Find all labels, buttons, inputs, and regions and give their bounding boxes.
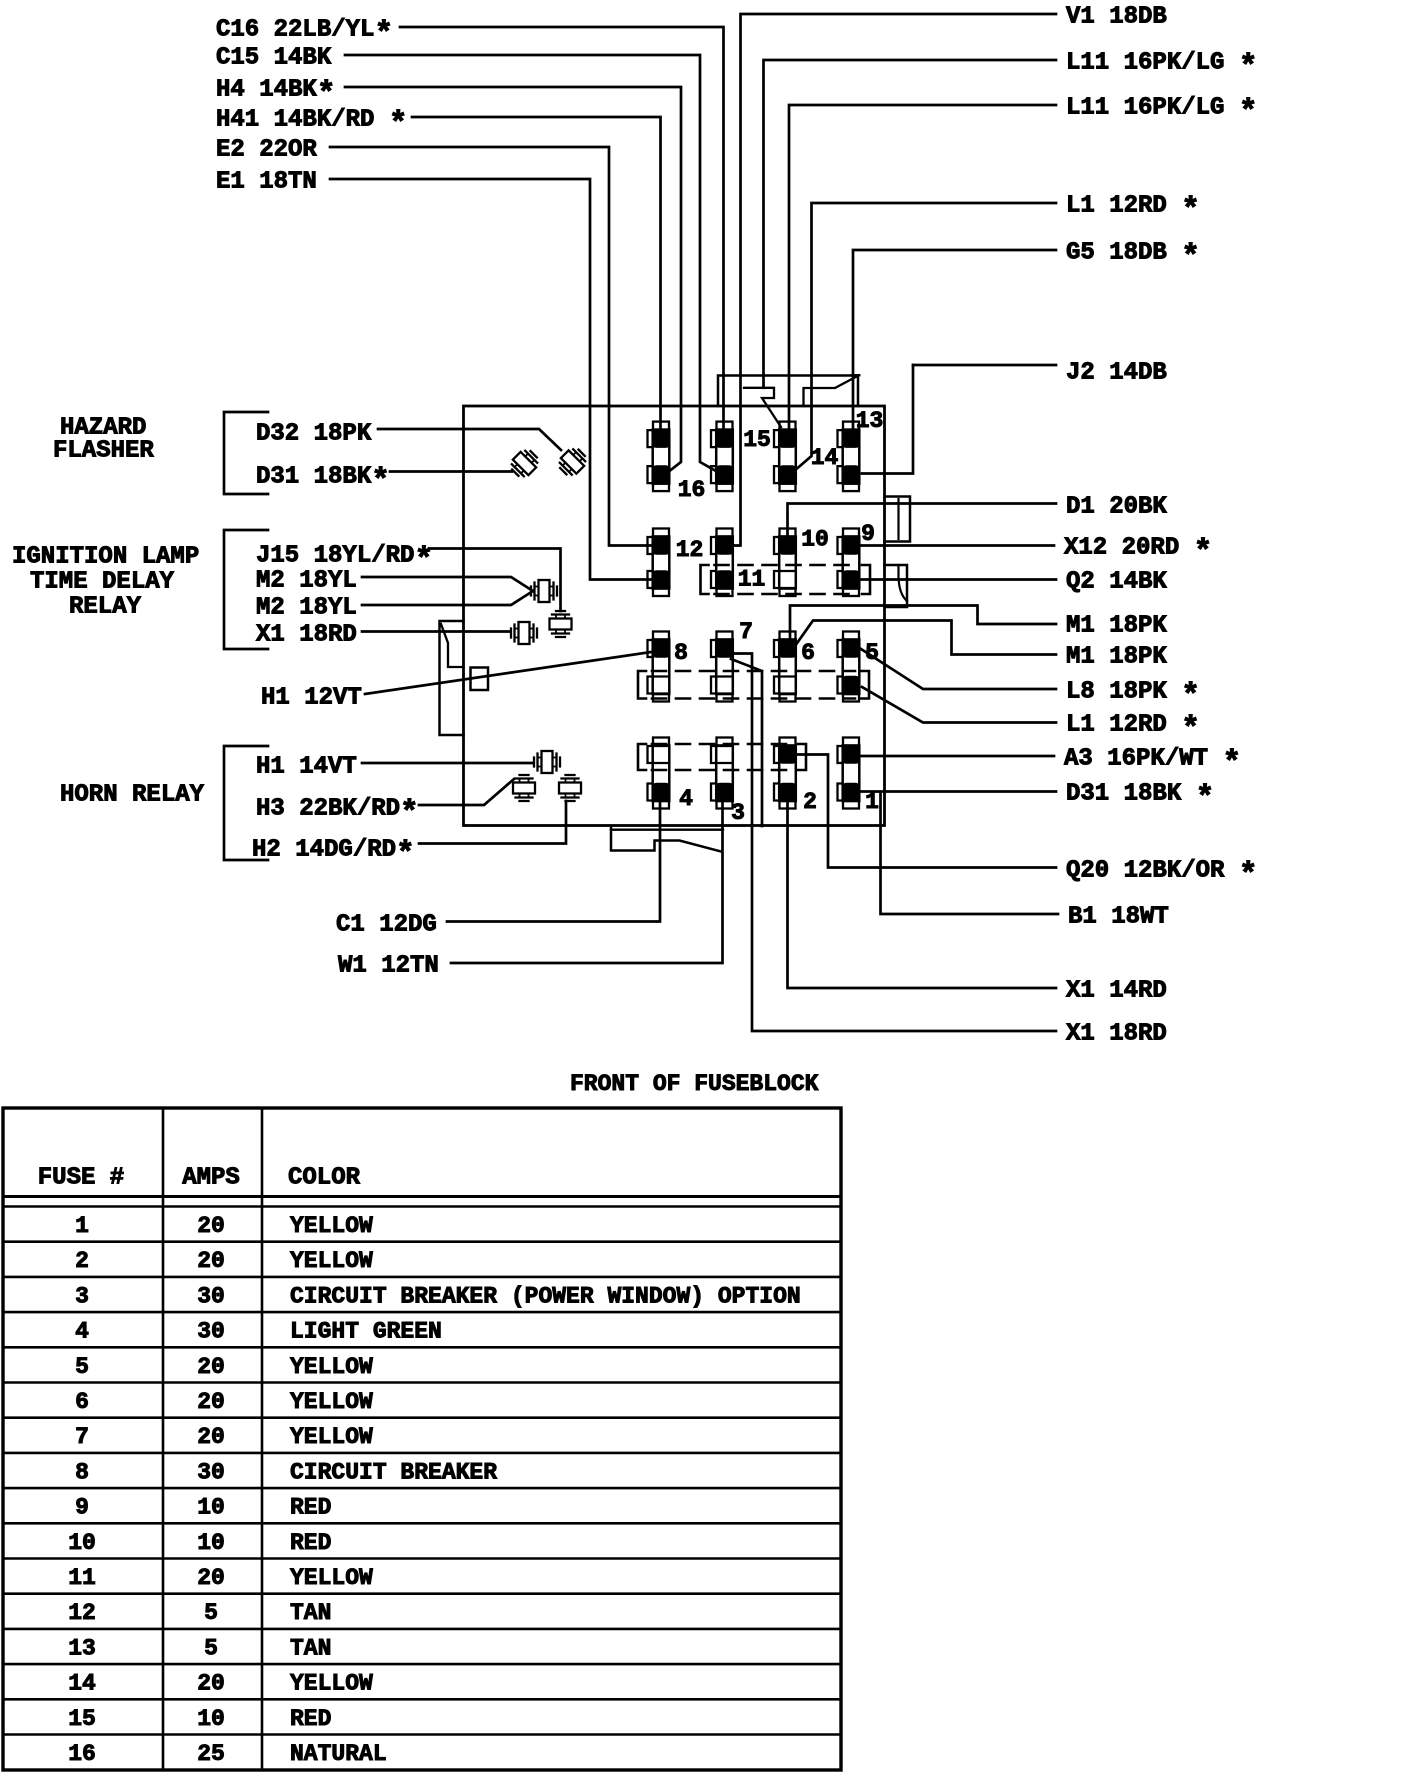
wire X1 18RD from fuse 7 top <box>735 654 1056 1032</box>
svg-text:25: 25 <box>197 1741 225 1767</box>
table row line 4 <box>3 1346 841 1349</box>
table row line 14 <box>3 1698 841 1701</box>
svg-text:E1 18TN: E1 18TN <box>216 168 317 195</box>
connector H1 socket square <box>471 668 489 691</box>
fuse F6 <box>774 632 797 702</box>
wire L11 second to fuse 14 top <box>789 105 1056 429</box>
table row line 7 <box>3 1452 841 1455</box>
svg-text:30: 30 <box>197 1459 225 1485</box>
wire C15 to fuse 15 bottom <box>345 55 716 471</box>
svg-text:5: 5 <box>204 1635 218 1661</box>
fuse F7 <box>711 632 734 702</box>
svg-text:AMPS: AMPS <box>182 1164 240 1191</box>
svg-text:5: 5 <box>204 1600 218 1626</box>
fuse F1 <box>838 738 861 809</box>
svg-text:11: 11 <box>68 1565 96 1591</box>
table column line 2 <box>261 1108 264 1770</box>
table column line 1 <box>162 1108 165 1770</box>
svg-text:15: 15 <box>743 427 771 453</box>
svg-text:X1 18RD: X1 18RD <box>1066 1020 1167 1047</box>
dashed outline row 4 upper <box>638 744 646 770</box>
svg-text:10: 10 <box>68 1530 96 1556</box>
ignition relay plug X1 <box>511 622 537 644</box>
wire L1 top to fuse 14 bottom <box>797 203 1056 469</box>
svg-text:4: 4 <box>679 786 693 812</box>
svg-text:10: 10 <box>197 1530 225 1556</box>
svg-text:M2 18YL: M2 18YL <box>256 594 357 621</box>
svg-text:TAN: TAN <box>290 1600 331 1626</box>
svg-text:X12 20RD *: X12 20RD * <box>1064 534 1212 570</box>
wire X1 left to relay plug <box>362 630 510 633</box>
bracket ignition relay group <box>224 530 268 649</box>
wire C1 to fuse 4 bottom <box>447 801 660 922</box>
wire X12 to fuse 9 top <box>862 544 1055 547</box>
wire W1 to fuse 3 bottom <box>451 801 723 963</box>
fuse table <box>3 1108 841 1770</box>
wire G5 tab stub <box>852 374 860 376</box>
bracket horn relay group <box>224 746 268 860</box>
wire H2 to horn plug <box>419 801 566 844</box>
wire A3 to fuse 1 top <box>862 755 1055 758</box>
fuse F14 <box>774 422 797 492</box>
wire M2 second to relay plug <box>362 591 533 605</box>
fuse F12 <box>648 529 671 597</box>
svg-text:D31 18BK*: D31 18BK* <box>256 463 390 499</box>
svg-text:20: 20 <box>197 1671 225 1697</box>
fuse F2 <box>774 738 797 809</box>
wire fuse 7 stub <box>731 659 762 826</box>
svg-text:1: 1 <box>75 1213 89 1239</box>
wire L8 to fuse 5 top <box>861 649 1056 689</box>
svg-text:A3 16PK/WT *: A3 16PK/WT * <box>1064 745 1241 781</box>
dashed outline row 3 lower <box>638 671 646 699</box>
svg-text:3: 3 <box>75 1283 89 1309</box>
table row line 3 <box>3 1311 841 1314</box>
svg-text:2: 2 <box>75 1248 89 1274</box>
svg-text:8: 8 <box>75 1459 89 1485</box>
svg-text:J2 14DB: J2 14DB <box>1066 359 1167 386</box>
svg-text:X1 14RD: X1 14RD <box>1066 977 1167 1004</box>
fuse F10 <box>774 529 797 597</box>
wire L11 first to fuse 14 top <box>764 60 1057 388</box>
svg-text:M1 18PK: M1 18PK <box>1066 643 1167 670</box>
svg-text:6: 6 <box>75 1389 89 1415</box>
svg-text:RED: RED <box>290 1706 331 1732</box>
horn relay plug H1 <box>534 751 560 773</box>
svg-text:20: 20 <box>197 1565 225 1591</box>
svg-text:6: 6 <box>801 640 815 666</box>
fuse F8 <box>648 632 671 702</box>
wire D31 to fuse 1 bottom <box>862 790 1057 793</box>
svg-text:L11 16PK/LG *: L11 16PK/LG * <box>1066 49 1258 85</box>
svg-text:9: 9 <box>861 521 875 547</box>
wire D1 to fuse 10 top <box>788 504 1057 537</box>
svg-text:V1 18DB: V1 18DB <box>1066 3 1167 30</box>
svg-text:LIGHT GREEN: LIGHT GREEN <box>290 1319 442 1345</box>
wire M1 first to fuse 6 top <box>790 606 1056 641</box>
wire M1 second to fuse 6 top <box>795 621 1056 655</box>
wire V1 to fuse 11 top <box>735 14 1056 546</box>
fuse block bottom double edge <box>611 829 723 831</box>
svg-text:20: 20 <box>197 1424 225 1450</box>
wire J2 to fuse 13 bottom <box>862 365 913 474</box>
fuse block right tab upper <box>885 497 911 542</box>
hazard flasher plug right <box>556 445 590 479</box>
svg-text:L11 16PK/LG *: L11 16PK/LG * <box>1066 94 1258 130</box>
wire J15 to relay plug <box>429 549 561 612</box>
table outer border <box>3 1108 841 1770</box>
svg-text:1: 1 <box>865 789 879 815</box>
ignition relay plug J15 <box>550 611 572 637</box>
svg-text:30: 30 <box>197 1283 225 1309</box>
fuse F9 <box>838 529 861 597</box>
table row line 2 <box>3 1276 841 1279</box>
svg-text:FUSE #: FUSE # <box>38 1164 124 1191</box>
wire E1 to fuse 12 bottom <box>330 179 651 580</box>
fuse F15 <box>711 422 734 492</box>
svg-text:H2 14DG/RD*: H2 14DG/RD* <box>252 836 415 872</box>
dashed outline fuse 11 row <box>701 565 709 594</box>
fuse F13 <box>838 422 861 492</box>
svg-text:M2 18YL: M2 18YL <box>256 567 357 594</box>
fuse F11 <box>711 529 734 597</box>
svg-text:11: 11 <box>738 566 766 592</box>
wire L1 bottom to fuse 5 bottom <box>862 687 1056 723</box>
wire X1 14RD from fuse 2 bottom <box>788 801 1057 988</box>
svg-text:20: 20 <box>197 1354 225 1380</box>
svg-text:10: 10 <box>801 526 829 552</box>
svg-text:C15 14BK: C15 14BK <box>216 44 332 71</box>
svg-text:14: 14 <box>811 445 839 471</box>
wire E2 to fuse 12 top <box>330 147 651 546</box>
svg-text:IGNITION LAMP: IGNITION LAMP <box>12 543 199 570</box>
ignition relay plug M2 <box>531 580 557 602</box>
wire H41 to fuse 16 top <box>412 117 661 429</box>
svg-text:CIRCUIT BREAKER (POWER WINDOW): CIRCUIT BREAKER (POWER WINDOW) OPTION <box>290 1283 801 1309</box>
wire Q2 to fuse 9 bottom <box>862 578 1057 581</box>
svg-text:8: 8 <box>674 640 688 666</box>
svg-text:7: 7 <box>75 1424 89 1450</box>
table row line 15 <box>3 1733 841 1736</box>
svg-text:NATURAL: NATURAL <box>290 1741 387 1767</box>
wire D32 to flasher <box>378 429 561 450</box>
fuse block top tab <box>718 376 858 407</box>
svg-text:D32 18PK: D32 18PK <box>256 420 372 447</box>
fuse block right tab lower <box>885 565 908 607</box>
svg-text:D1 20BK: D1 20BK <box>1066 493 1167 520</box>
svg-text:TIME DELAY: TIME DELAY <box>30 568 175 595</box>
svg-text:YELLOW: YELLOW <box>290 1248 373 1274</box>
svg-text:Q2 14BK: Q2 14BK <box>1066 568 1167 595</box>
wire J2 leader <box>913 364 1056 367</box>
svg-text:G5 18DB *: G5 18DB * <box>1066 239 1200 275</box>
svg-text:E2 22OR: E2 22OR <box>216 136 317 163</box>
wire jog to top tab corner <box>804 376 858 406</box>
table row line 9 <box>3 1522 841 1525</box>
svg-text:RED: RED <box>290 1495 331 1521</box>
svg-text:16: 16 <box>678 477 706 503</box>
svg-text:RELAY: RELAY <box>69 593 142 620</box>
table row line 8 <box>3 1487 841 1490</box>
svg-text:H3 22BK/RD*: H3 22BK/RD* <box>256 795 419 831</box>
svg-text:16: 16 <box>68 1741 96 1767</box>
svg-text:20: 20 <box>197 1389 225 1415</box>
table row line 11 <box>3 1592 841 1595</box>
table row line 5 <box>3 1381 841 1384</box>
fuse F4 <box>648 738 671 809</box>
hazard flasher plug left <box>508 447 542 481</box>
svg-text:20: 20 <box>197 1213 225 1239</box>
svg-text:FRONT OF FUSEBLOCK: FRONT OF FUSEBLOCK <box>570 1071 819 1097</box>
svg-text:3: 3 <box>731 800 745 826</box>
svg-text:YELLOW: YELLOW <box>290 1671 373 1697</box>
svg-text:4: 4 <box>75 1319 89 1345</box>
wire G5 to fuse 13 top <box>853 250 1056 429</box>
svg-text:D31 18BK *: D31 18BK * <box>1066 780 1214 816</box>
svg-text:12: 12 <box>68 1600 96 1626</box>
svg-text:YELLOW: YELLOW <box>290 1565 373 1591</box>
wire B1 from fuse 1 bottom <box>881 793 1059 914</box>
bracket hazard flasher group <box>224 412 268 494</box>
fuse block bottom notch <box>611 826 721 852</box>
svg-text:L1 12RD *: L1 12RD * <box>1066 192 1200 228</box>
svg-text:9: 9 <box>75 1495 89 1521</box>
svg-text:5: 5 <box>75 1354 89 1380</box>
svg-text:10: 10 <box>197 1706 225 1732</box>
fuse block tab door curve <box>899 565 908 601</box>
svg-text:B1 18WT: B1 18WT <box>1068 903 1169 930</box>
svg-text:M1 18PK: M1 18PK <box>1066 612 1167 639</box>
fuse F16 <box>648 422 671 492</box>
wire M2 first to relay plug <box>362 577 533 591</box>
svg-text:X1 18RD: X1 18RD <box>256 621 357 648</box>
table row line 10 <box>3 1557 841 1560</box>
svg-text:CIRCUIT BREAKER: CIRCUIT BREAKER <box>290 1459 497 1485</box>
svg-text:W1 12TN: W1 12TN <box>338 952 439 979</box>
svg-text:YELLOW: YELLOW <box>290 1424 373 1450</box>
table header rule double <box>3 1195 841 1198</box>
svg-text:L1 12RD *: L1 12RD * <box>1066 711 1200 747</box>
horn relay plug left <box>513 775 535 801</box>
wire D31 to flasher <box>390 470 512 473</box>
svg-text:H1 14VT: H1 14VT <box>256 753 357 780</box>
svg-text:RED: RED <box>290 1530 331 1556</box>
svg-text:13: 13 <box>856 408 884 434</box>
svg-text:TAN: TAN <box>290 1635 331 1661</box>
table row line 13 <box>3 1663 841 1666</box>
svg-text:YELLOW: YELLOW <box>290 1389 373 1415</box>
svg-text:12: 12 <box>676 537 704 563</box>
horn relay plug right <box>559 775 581 801</box>
svg-text:L8 18PK *: L8 18PK * <box>1066 678 1200 714</box>
wire C16 to fuse 15 top <box>400 27 724 429</box>
fuse F5 <box>838 632 861 702</box>
fuse F3 <box>711 738 734 809</box>
svg-text:FLASHER: FLASHER <box>53 437 154 464</box>
wire Q20 to fuse 2 top <box>798 755 1057 868</box>
svg-text:H1 12VT: H1 12VT <box>261 684 362 711</box>
fuse block left bracket connector <box>440 621 464 735</box>
svg-text:HORN RELAY: HORN RELAY <box>60 781 205 808</box>
svg-text:Q20 12BK/OR *: Q20 12BK/OR * <box>1066 857 1258 893</box>
table row line 6 <box>3 1416 841 1419</box>
svg-text:COLOR: COLOR <box>288 1164 361 1191</box>
fuse block outline <box>464 406 885 826</box>
table row line 1 <box>3 1240 841 1243</box>
wire H4 to fuse 16 bottom <box>345 87 681 471</box>
svg-text:30: 30 <box>197 1319 225 1345</box>
svg-text:YELLOW: YELLOW <box>290 1354 373 1380</box>
svg-text:YELLOW: YELLOW <box>290 1213 373 1239</box>
svg-text:20: 20 <box>197 1248 225 1274</box>
wire H3 to horn plug <box>419 779 514 805</box>
wire H1 14VT to horn plug <box>362 762 533 765</box>
table row line 12 <box>3 1628 841 1631</box>
svg-text:2: 2 <box>803 789 817 815</box>
svg-text:7: 7 <box>739 619 753 645</box>
svg-text:15: 15 <box>68 1706 96 1732</box>
svg-text:5: 5 <box>865 640 879 666</box>
svg-text:14: 14 <box>68 1671 96 1697</box>
svg-text:13: 13 <box>68 1635 96 1661</box>
svg-text:C1 12DG: C1 12DG <box>336 911 437 938</box>
svg-text:10: 10 <box>197 1495 225 1521</box>
wire H1 12VT to fuse 8 top <box>365 652 651 694</box>
